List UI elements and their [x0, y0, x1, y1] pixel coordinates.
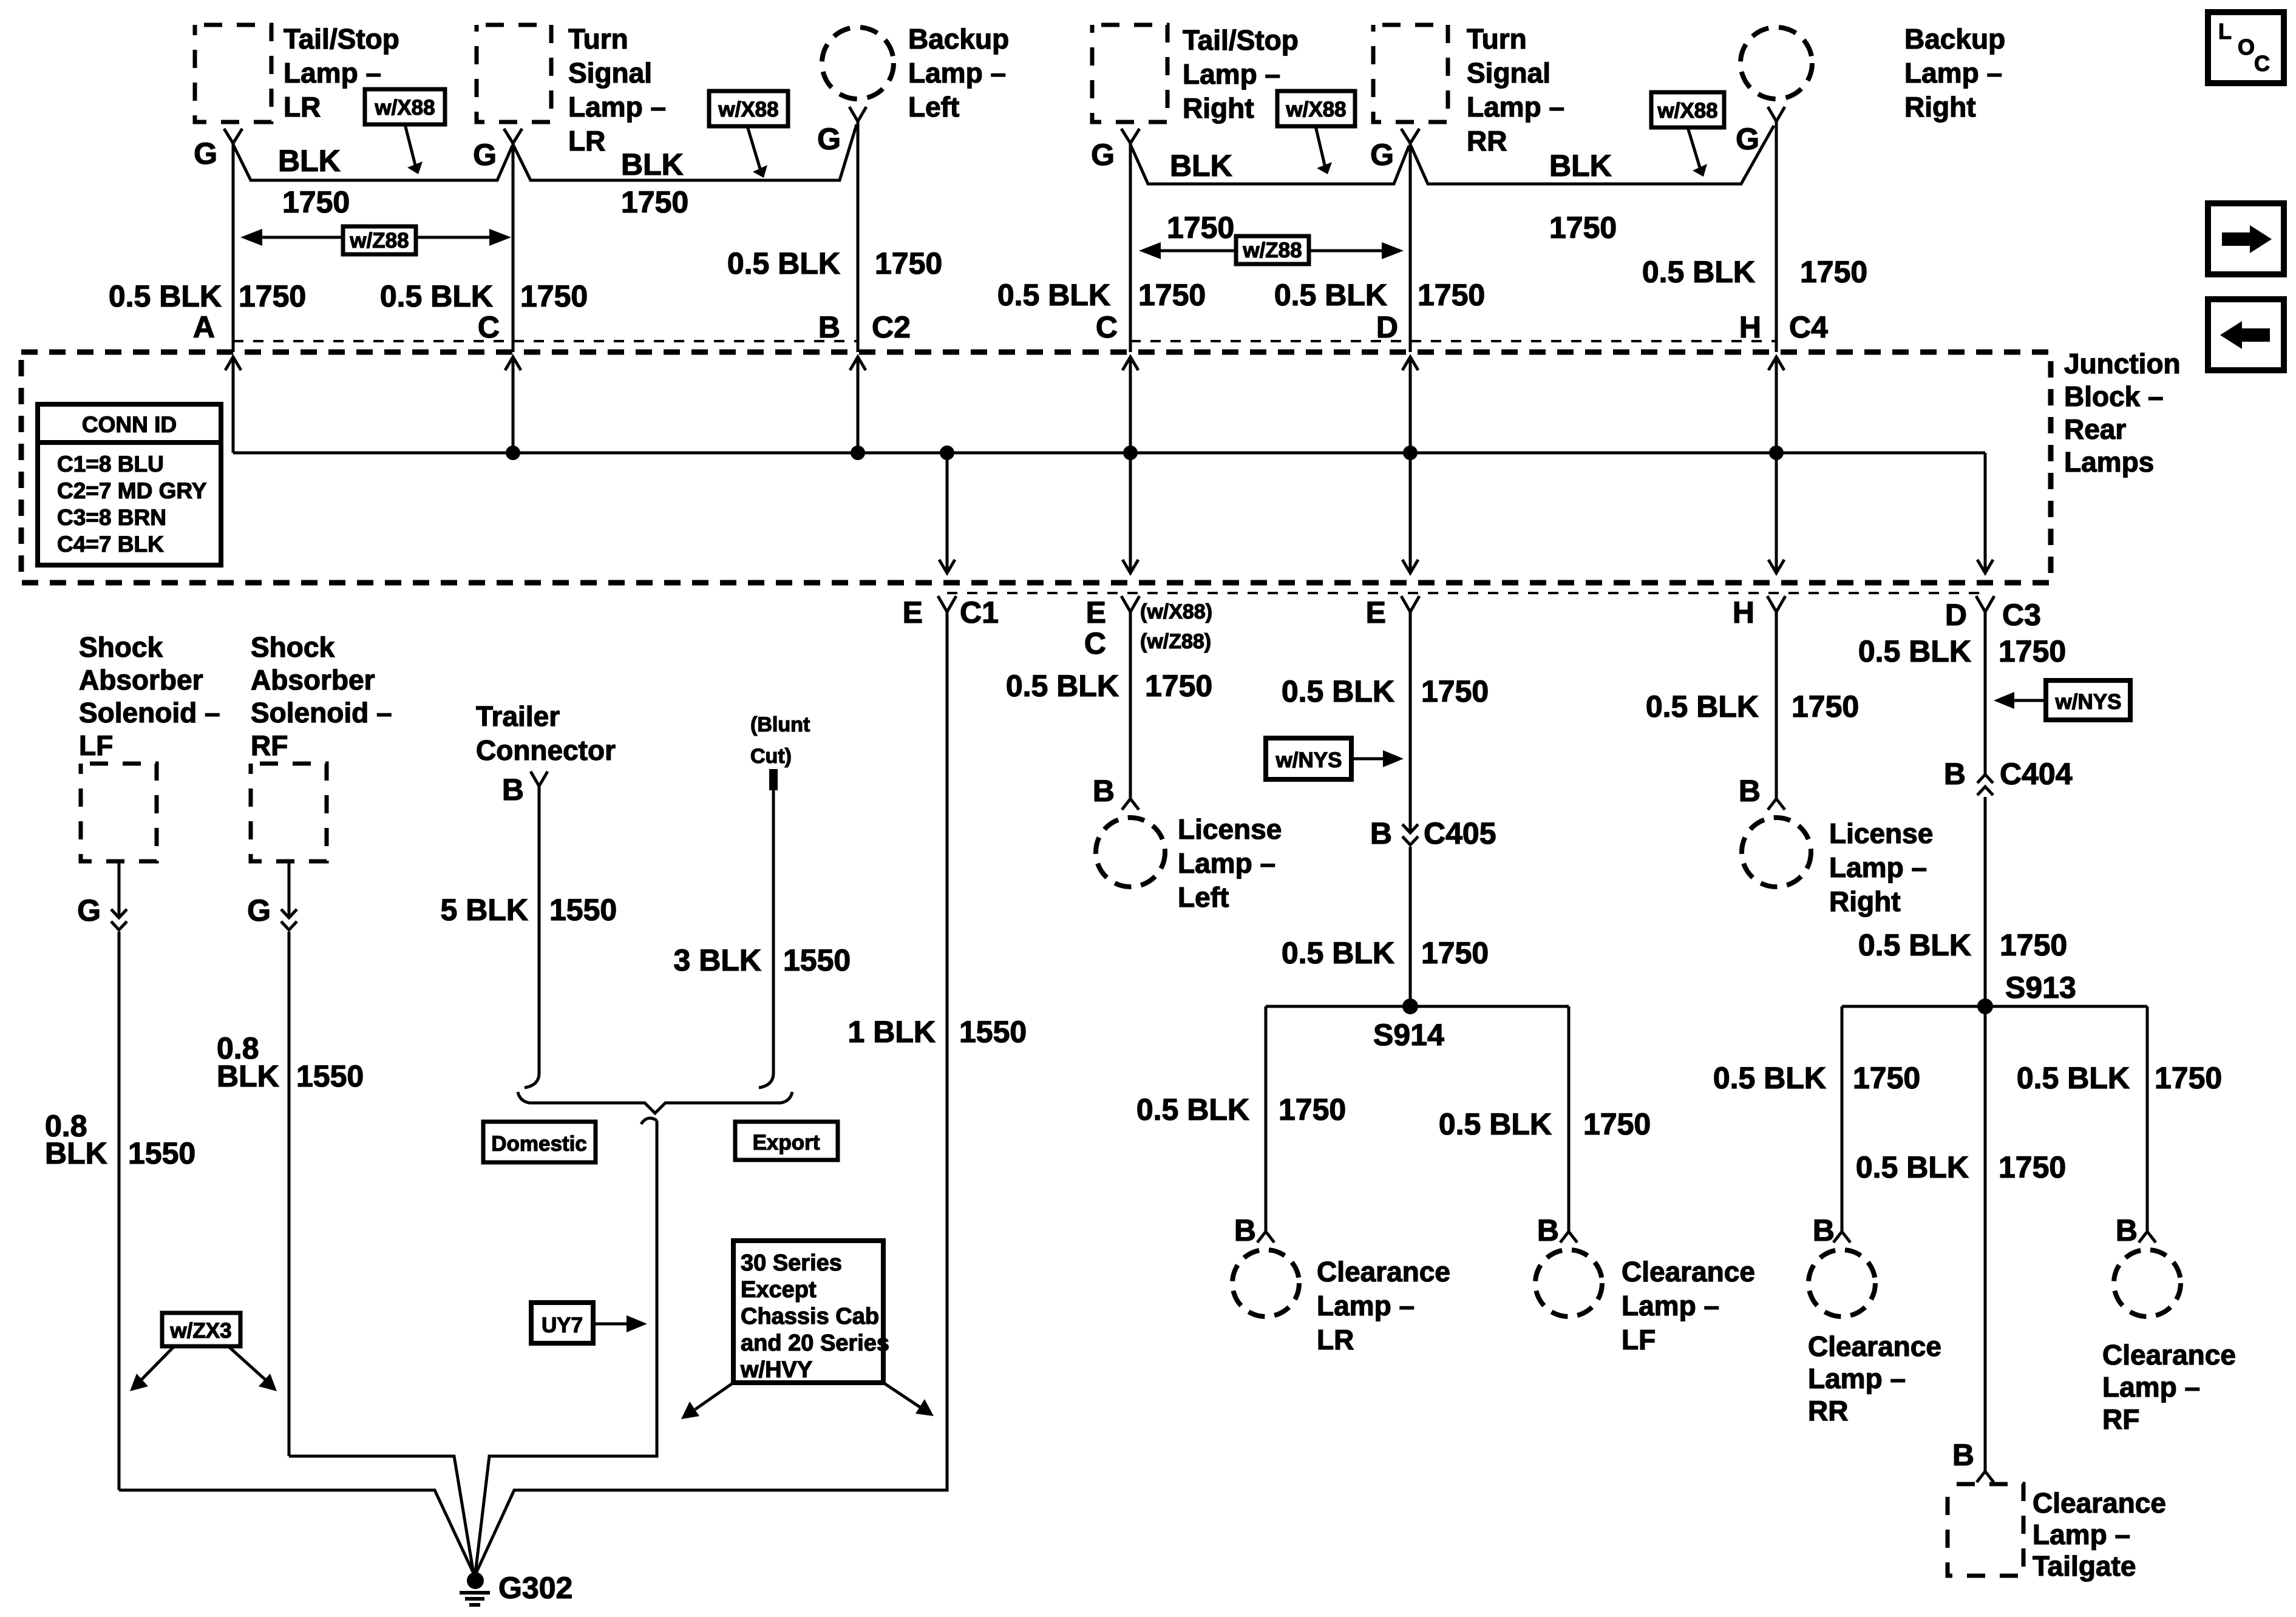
w/ZX3 annotation box with arrows — [130, 1313, 277, 1391]
merge brace for trailer / blunt cut wires — [518, 1092, 792, 1113]
svg-text:BLK: BLK — [621, 147, 684, 181]
w/X88 annotation box 3 — [1277, 91, 1355, 174]
svg-text:Absorber: Absorber — [251, 664, 375, 696]
svg-text:Lamp –: Lamp – — [1467, 91, 1564, 123]
connector line C4 (thin dashed) — [1130, 340, 1776, 342]
svg-text:1750: 1750 — [875, 246, 942, 280]
svg-text:0.5 BLK: 0.5 BLK — [1713, 1061, 1826, 1095]
wire 5 BLK 1550 from trailer connector — [441, 786, 617, 1088]
svg-text:RF: RF — [2102, 1403, 2139, 1435]
connector fork under tail/stop LR, pin G — [194, 129, 242, 171]
CONN ID table — [38, 404, 221, 565]
fork at junction bottom, wire H — [1733, 595, 1785, 629]
fork at junction bottom, wire E/C1 — [903, 595, 999, 629]
svg-text:and 20 Series: and 20 Series — [741, 1331, 889, 1356]
30 series option box with arrows — [681, 1241, 934, 1419]
backup lamp left circle — [822, 23, 1009, 123]
svg-text:S913: S913 — [2005, 971, 2076, 1005]
svg-text:1750: 1750 — [2155, 1061, 2222, 1095]
fork above clearance lamp RR, pin B — [1813, 1213, 1850, 1247]
svg-text:C2: C2 — [872, 310, 911, 344]
fork at junction bottom, wire E/C — [1084, 595, 1212, 660]
svg-text:1750: 1750 — [1167, 211, 1234, 245]
svg-text:w/Z88: w/Z88 — [1242, 239, 1302, 262]
svg-text:Absorber: Absorber — [79, 664, 203, 696]
svg-text:D: D — [1945, 598, 1967, 632]
common wire from brace to ground — [475, 1118, 657, 1573]
turn signal lamp RR box — [1373, 23, 1564, 157]
connector fork under backup right, pin G — [1736, 107, 1785, 156]
svg-text:Junction: Junction — [2064, 348, 2181, 379]
svg-text:H: H — [1739, 310, 1761, 344]
wire D/C3 corner inside block with down arrow — [1977, 453, 1993, 573]
svg-text:C3: C3 — [2002, 598, 2041, 632]
blunt cut wire 3 BLK 1550 — [674, 713, 851, 1088]
wire C vertical right group (0.5 BLK 1750) — [997, 143, 1206, 352]
export option box — [735, 1122, 838, 1160]
svg-text:Chassis Cab: Chassis Cab — [741, 1304, 879, 1329]
svg-text:C1=8 BLU: C1=8 BLU — [57, 452, 164, 476]
node dot wire E/C1 on bus — [940, 446, 954, 460]
svg-text:Right: Right — [1904, 91, 1976, 123]
svg-text:0.5 BLK: 0.5 BLK — [2017, 1061, 2130, 1095]
svg-text:Lamp –: Lamp – — [1829, 852, 1927, 883]
fork above clearance lamp LF, pin B — [1537, 1213, 1577, 1247]
svg-text:Signal: Signal — [1467, 57, 1550, 89]
node dot wire C on bus — [506, 446, 520, 460]
connector fork under backup left, pin G — [817, 107, 866, 156]
svg-text:G: G — [1370, 138, 1394, 172]
svg-text:0.5 BLK: 0.5 BLK — [1006, 669, 1119, 703]
fork at junction bottom, wire E — [1366, 595, 1419, 629]
svg-text:30 Series: 30 Series — [741, 1250, 842, 1276]
svg-text:Shock: Shock — [79, 631, 163, 663]
fork above clearance lamp RF, pin B — [2116, 1213, 2156, 1247]
svg-text:LR: LR — [568, 125, 605, 157]
clearance lamp LR circle — [1232, 1250, 1450, 1355]
svg-text:Lamp –: Lamp – — [568, 91, 666, 123]
clearance lamp LF circle — [1535, 1250, 1755, 1355]
svg-text:Solenoid –: Solenoid – — [79, 697, 220, 728]
svg-text:B: B — [2116, 1213, 2138, 1247]
node dot wire E/C on bus — [1123, 446, 1138, 460]
svg-text:1750: 1750 — [1999, 634, 2066, 668]
svg-text:B: B — [818, 310, 840, 344]
svg-text:C: C — [1096, 310, 1118, 344]
svg-text:w/ZX3: w/ZX3 — [169, 1319, 231, 1343]
svg-text:Turn: Turn — [1467, 23, 1527, 55]
wire RF elbow to ground — [289, 1456, 474, 1573]
wire A inside junction block with up arrow — [225, 357, 241, 453]
svg-text:B: B — [1234, 1213, 1256, 1247]
wire C(right) inside junction block with up arrow — [1123, 357, 1138, 453]
svg-text:Lamp –: Lamp – — [1178, 847, 1275, 879]
svg-text:1750: 1750 — [1421, 936, 1489, 970]
svg-text:Clearance: Clearance — [1808, 1331, 1941, 1362]
w/Z88 double arrow 2 — [1139, 236, 1404, 264]
tail/stop lamp Right box — [1092, 24, 1299, 124]
svg-text:BLK: BLK — [217, 1059, 279, 1093]
svg-text:w/X88: w/X88 — [718, 98, 778, 121]
shock absorber solenoid LF box — [79, 631, 220, 861]
wire label 0.5 BLK 1750 tailgate run — [1856, 1150, 2066, 1184]
svg-text:C1: C1 — [960, 595, 999, 629]
svg-text:(w/Z88): (w/Z88) — [1140, 630, 1211, 653]
svg-text:1750: 1750 — [2000, 928, 2067, 962]
wire H 0.5 BLK 1750 to license lamp right — [1646, 612, 1859, 799]
wire BLK 1750 between turn signal RR and backup lamp right — [1410, 126, 1774, 245]
svg-text:0.5 BLK: 0.5 BLK — [1646, 690, 1759, 724]
svg-text:Export: Export — [753, 1131, 820, 1154]
domestic option box — [483, 1122, 596, 1162]
svg-text:Tail/Stop: Tail/Stop — [284, 23, 399, 55]
svg-text:Solenoid –: Solenoid – — [251, 697, 392, 728]
svg-text:1750: 1750 — [1549, 211, 1617, 245]
wire C vertical (0.5 BLK 1750) — [380, 143, 588, 352]
svg-text:Lamp –: Lamp – — [1183, 58, 1280, 90]
svg-text:(Blunt: (Blunt — [750, 713, 810, 736]
clearance lamp RF circle — [2102, 1250, 2236, 1435]
wire H inside junction block with up arrow — [1768, 357, 1784, 453]
junction block internal bus — [233, 452, 1985, 455]
svg-text:B: B — [1537, 1213, 1559, 1247]
svg-text:C4=7 BLK: C4=7 BLK — [57, 532, 164, 557]
svg-text:1550: 1550 — [549, 893, 617, 927]
svg-text:Backup: Backup — [908, 23, 1009, 55]
svg-text:BLK: BLK — [278, 144, 341, 178]
wire E/C inside block with down arrow — [1123, 453, 1138, 573]
svg-text:B: B — [1952, 1438, 1974, 1472]
svg-text:1750: 1750 — [1138, 278, 1206, 312]
svg-text:A: A — [193, 310, 215, 344]
svg-text:C404: C404 — [2000, 757, 2073, 791]
svg-text:0.5 BLK: 0.5 BLK — [109, 279, 222, 313]
wire D/C3 0.5 BLK 1750 down from junction — [1858, 612, 2066, 1471]
fork above license lamp right, pin B — [1739, 774, 1785, 810]
svg-text:Backup: Backup — [1904, 23, 2005, 55]
svg-text:1750: 1750 — [1800, 255, 1867, 289]
connector fork under tail/stop right, pin G — [1091, 129, 1140, 172]
svg-text:Lamp –: Lamp – — [2033, 1519, 2130, 1550]
svg-text:G: G — [194, 137, 217, 171]
tail/stop lamp LR box — [195, 23, 399, 123]
svg-text:w/X88: w/X88 — [1657, 99, 1717, 123]
w/X88 annotation box 1 — [365, 89, 445, 174]
svg-text:Lamp –: Lamp – — [1317, 1290, 1415, 1321]
svg-text:0.5 BLK: 0.5 BLK — [1642, 255, 1755, 289]
svg-text:G: G — [247, 893, 271, 927]
wire H/C4 vertical (0.5 BLK 1750) — [1642, 121, 1867, 352]
wire label 0.5 BLK 1750 above S913 — [1858, 928, 2067, 962]
svg-text:Left: Left — [908, 91, 959, 123]
fork above license lamp left, pin B — [1093, 774, 1139, 810]
svg-text:Tailgate: Tailgate — [2033, 1550, 2136, 1582]
svg-text:RR: RR — [1808, 1395, 1848, 1426]
trailer connector — [476, 700, 616, 807]
inline connector C404 pin B — [1944, 757, 2073, 795]
w/Z88 double arrow 1 — [240, 226, 511, 254]
svg-text:Lamp –: Lamp – — [1904, 57, 2002, 89]
svg-text:1550: 1550 — [959, 1015, 1027, 1049]
svg-text:B: B — [502, 773, 524, 807]
connector fork under turn signal LR, pin G — [473, 129, 522, 172]
svg-text:0.5 BLK: 0.5 BLK — [1856, 1150, 1969, 1184]
wire 0.8 BLK 1550 from solenoid RF, pin G ground chevrons — [217, 861, 364, 1456]
connector line C1/C3 (thin dashed) — [947, 592, 1985, 594]
svg-text:Cut): Cut) — [750, 745, 792, 768]
svg-text:1750: 1750 — [1792, 690, 1859, 724]
wire D vertical (0.5 BLK 1750) — [1274, 143, 1485, 352]
svg-text:Lamp –: Lamp – — [1622, 1290, 1719, 1321]
svg-text:Lamp –: Lamp – — [908, 57, 1006, 89]
svg-text:0.5 BLK: 0.5 BLK — [1439, 1107, 1552, 1141]
wire BLK 1750 between tail/stop LR and turn signal LR — [233, 144, 512, 219]
arrow box right — [2208, 203, 2284, 274]
wire 0.5 BLK 1750 S914 to clearance lamp LF — [1439, 1006, 1651, 1232]
svg-text:Clearance: Clearance — [1622, 1256, 1755, 1287]
svg-text:w/HVY: w/HVY — [740, 1357, 812, 1383]
svg-text:0.5 BLK: 0.5 BLK — [380, 279, 493, 313]
wire C inside junction block with up arrow — [505, 357, 521, 453]
wire E/C 0.5 BLK 1750 to license lamp left — [1006, 612, 1212, 799]
splice S913 — [1842, 971, 2147, 1014]
svg-text:Domestic: Domestic — [491, 1132, 587, 1156]
svg-text:Lamp –: Lamp – — [284, 57, 381, 89]
connector fork under turn signal RR, pin G — [1370, 129, 1419, 172]
svg-text:Lamp –: Lamp – — [1808, 1363, 1906, 1394]
svg-text:1750: 1750 — [1583, 1107, 1651, 1141]
svg-text:Lamp –: Lamp – — [2102, 1371, 2200, 1403]
w/X88 annotation box 2 — [709, 91, 788, 178]
svg-text:0.5 BLK: 0.5 BLK — [1858, 634, 1971, 668]
svg-text:C: C — [1084, 626, 1106, 660]
wire BLK 1750 between turn signal LR and backup lamp left — [513, 124, 857, 219]
svg-text:1550: 1550 — [296, 1059, 364, 1093]
svg-text:G: G — [817, 122, 841, 156]
svg-text:Clearance: Clearance — [2102, 1339, 2236, 1371]
svg-text:Left: Left — [1178, 881, 1229, 913]
wire 0.5 BLK 1750 S913 to clearance lamp RF — [2017, 1006, 2222, 1232]
ground G302 — [460, 1571, 572, 1605]
LOC reference box — [2208, 12, 2284, 83]
svg-text:BLK: BLK — [1170, 149, 1232, 183]
svg-text:E: E — [903, 595, 923, 629]
svg-text:1550: 1550 — [783, 943, 851, 977]
svg-text:0.5 BLK: 0.5 BLK — [1136, 1093, 1249, 1127]
svg-text:H: H — [1733, 595, 1754, 629]
svg-text:S914: S914 — [1373, 1018, 1444, 1052]
wire B/C2 inside junction block with up arrow — [850, 357, 866, 453]
svg-text:1750: 1750 — [1145, 669, 1212, 703]
svg-text:0.5 BLK: 0.5 BLK — [997, 278, 1110, 312]
node dot wire H on bus — [1769, 446, 1784, 460]
junction block - rear lamps dashed border — [21, 348, 2181, 583]
svg-text:Clearance: Clearance — [1317, 1256, 1450, 1287]
svg-text:License: License — [1178, 813, 1282, 845]
svg-text:w/X88: w/X88 — [374, 96, 435, 120]
connector line C2 (thin dashed) — [233, 340, 858, 342]
svg-text:1750: 1750 — [1418, 278, 1485, 312]
svg-text:1750: 1750 — [520, 279, 588, 313]
svg-text:1550: 1550 — [128, 1136, 195, 1170]
clearance lamp tailgate dashed box — [1948, 1484, 2166, 1582]
wire 0.5 BLK 1750 S913 to clearance lamp RR — [1713, 1006, 1920, 1232]
fork above clearance lamp LR, pin B — [1234, 1213, 1274, 1247]
svg-text:1750: 1750 — [239, 279, 306, 313]
svg-text:w/NYS: w/NYS — [1275, 748, 1342, 772]
svg-text:1750: 1750 — [1279, 1093, 1346, 1127]
svg-text:D: D — [1376, 310, 1398, 344]
wire E 0.5 BLK 1750 down to S914 — [1282, 612, 1489, 1006]
svg-text:BLK: BLK — [45, 1136, 107, 1170]
svg-text:C405: C405 — [1424, 816, 1496, 850]
wire E/C1 inside block with down arrow — [939, 453, 955, 573]
w/X88 annotation box 4 — [1651, 92, 1724, 177]
svg-text:Shock: Shock — [251, 631, 335, 663]
svg-text:LR: LR — [1317, 1324, 1354, 1355]
svg-text:Signal: Signal — [568, 57, 652, 89]
UY7 annotation box with arrow — [531, 1303, 647, 1343]
svg-text:1750: 1750 — [1853, 1061, 1920, 1095]
fork at junction bottom, wire D/C3 — [1945, 596, 2041, 632]
wire E/C1 (1 BLK 1550) long run and elbow to ground — [476, 612, 1027, 1573]
svg-text:Except: Except — [741, 1277, 817, 1303]
svg-text:Clearance: Clearance — [2033, 1487, 2166, 1519]
license lamp left circle — [1096, 813, 1282, 913]
svg-text:1750: 1750 — [282, 185, 350, 219]
svg-text:B: B — [1944, 757, 1966, 791]
svg-text:1 BLK: 1 BLK — [848, 1015, 936, 1049]
svg-text:0.5 BLK: 0.5 BLK — [1274, 278, 1387, 312]
wire A vertical (0.5 BLK 1750) — [109, 143, 306, 352]
svg-text:Connector: Connector — [476, 734, 616, 766]
wire H lower inside block with down arrow — [1768, 453, 1784, 573]
wire D inside junction block with up arrow — [1402, 357, 1418, 453]
svg-text:Block –: Block – — [2064, 381, 2164, 412]
svg-text:C2=7 MD GRY: C2=7 MD GRY — [57, 478, 207, 503]
backup lamp right circle — [1741, 23, 2005, 123]
wire label 0.5 BLK 1750 above S914 — [1282, 936, 1489, 970]
svg-text:3 BLK: 3 BLK — [674, 943, 761, 977]
svg-text:Lamps: Lamps — [2064, 446, 2154, 478]
node dot wire B/C2 on bus — [851, 446, 865, 460]
svg-text:1750: 1750 — [621, 185, 688, 219]
svg-text:L: L — [2218, 19, 2232, 44]
svg-text:Trailer: Trailer — [476, 700, 560, 732]
svg-text:RF: RF — [251, 730, 288, 761]
node dot wire E on bus — [1403, 446, 1418, 460]
svg-text:G: G — [1091, 138, 1115, 172]
wire 0.5 BLK 1750 S914 to clearance lamp LR — [1136, 1006, 1346, 1232]
svg-text:w/X88: w/X88 — [1285, 98, 1346, 121]
svg-text:C: C — [2254, 51, 2270, 76]
svg-text:UY7: UY7 — [542, 1314, 583, 1337]
svg-text:G: G — [1736, 122, 1759, 156]
svg-text:Turn: Turn — [568, 23, 628, 55]
svg-text:LF: LF — [79, 730, 113, 761]
w/NYS annotation box right with arrow — [1994, 680, 2130, 720]
turn signal lamp LR box — [477, 23, 666, 157]
inline connector C405 pin B — [1370, 816, 1496, 850]
svg-text:w/Z88: w/Z88 — [349, 229, 409, 253]
svg-text:C: C — [478, 310, 500, 344]
svg-text:Right: Right — [1183, 92, 1254, 124]
clearance lamp RR circle — [1808, 1250, 1941, 1426]
svg-text:RR: RR — [1467, 125, 1507, 157]
wire 0.8 BLK 1550 from solenoid LF, pin G ground chevrons — [45, 861, 195, 1490]
w/NYS annotation box left with arrow — [1266, 738, 1404, 779]
svg-text:B: B — [1370, 816, 1392, 850]
svg-text:1750: 1750 — [1999, 1150, 2066, 1184]
svg-text:BLK: BLK — [1549, 149, 1612, 183]
svg-text:E: E — [1086, 595, 1106, 629]
wire LF elbow to ground — [119, 1490, 474, 1573]
svg-text:0.5 BLK: 0.5 BLK — [1282, 936, 1394, 970]
svg-text:5 BLK: 5 BLK — [441, 893, 528, 927]
splice S914 — [1266, 998, 1569, 1052]
fork above clearance lamp tailgate, pin B — [1952, 1438, 1994, 1482]
svg-text:(w/X88): (w/X88) — [1140, 600, 1212, 623]
wire E inside block with down arrow — [1402, 453, 1418, 573]
svg-text:B: B — [1813, 1213, 1835, 1247]
svg-text:LR: LR — [284, 91, 321, 123]
wire BLK 1750 between tail/stop right and turn signal RR — [1130, 144, 1409, 245]
license lamp right circle — [1742, 818, 1933, 917]
arrow box left — [2208, 299, 2284, 370]
svg-text:0.5 BLK: 0.5 BLK — [727, 246, 840, 280]
svg-text:B: B — [1739, 774, 1761, 808]
svg-text:O: O — [2238, 35, 2255, 59]
wire B/C2 vertical (0.5 BLK 1750) — [727, 121, 942, 352]
svg-text:C4: C4 — [1789, 310, 1828, 344]
svg-text:1750: 1750 — [1421, 674, 1489, 708]
svg-text:E: E — [1366, 595, 1386, 629]
svg-text:License: License — [1829, 818, 1933, 849]
svg-text:LF: LF — [1622, 1324, 1656, 1355]
svg-text:Right: Right — [1829, 886, 1901, 917]
svg-text:Rear: Rear — [2064, 413, 2126, 445]
shock absorber solenoid RF box — [251, 631, 392, 861]
svg-text:G: G — [77, 893, 101, 927]
svg-text:G: G — [473, 138, 497, 172]
svg-text:C3=8 BRN: C3=8 BRN — [57, 505, 166, 530]
svg-text:0.5 BLK: 0.5 BLK — [1282, 674, 1394, 708]
svg-text:Tail/Stop: Tail/Stop — [1183, 24, 1299, 56]
svg-text:w/NYS: w/NYS — [2055, 690, 2122, 714]
svg-text:CONN ID: CONN ID — [82, 412, 177, 437]
svg-text:0.5 BLK: 0.5 BLK — [1858, 928, 1971, 962]
svg-text:G302: G302 — [498, 1571, 572, 1605]
svg-text:B: B — [1093, 774, 1115, 808]
